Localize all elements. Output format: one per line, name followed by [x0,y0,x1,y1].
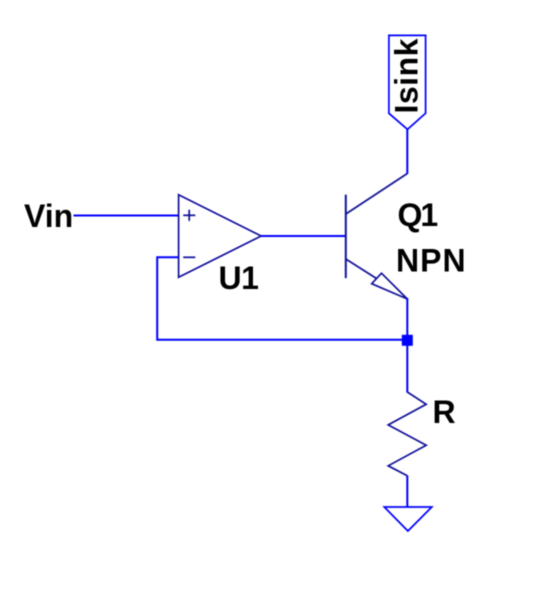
svg-text:Vin: Vin [24,198,73,234]
net label Vin [24,198,73,234]
svg-text:Q1: Q1 [398,197,438,233]
svg-text:Isink: Isink [388,38,424,113]
op-amp U1 [179,195,262,277]
svg-text:NPN: NPN [396,243,467,279]
label R [433,394,456,430]
resistor R [388,392,426,476]
net label Isink text [388,38,424,113]
label U1 [219,260,259,296]
svg-text:R: R [433,394,456,430]
net flag Isink [389,35,426,129]
wire Vin to U1 non-inverting input [74,215,180,217]
wire feedback from node to U1 inverting input [157,257,403,340]
transistor Q1 [346,174,408,300]
value label NPN [396,243,467,279]
wire Q1 emitter to node [406,298,408,337]
wire U1 output to Q1 base [261,235,346,237]
wire resistor R to ground [406,476,408,508]
svg-text:U1: U1 [219,260,259,296]
junction node [402,335,413,346]
ground [384,507,432,531]
wire node to resistor R [406,345,408,393]
wire Q1 collector to Isink flag [406,130,408,175]
label Q1 [398,197,438,233]
